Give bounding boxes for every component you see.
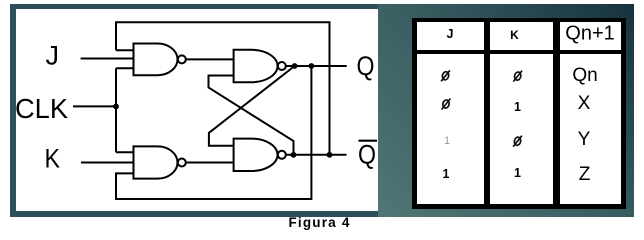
nand gate U3 top-right [234,50,286,82]
wire cross coupling Q to NAND4 upper input [209,66,295,146]
table symbol phi J row2 [442,99,451,110]
wire Qbar feedback top line [116,22,330,155]
svg-text:J: J [46,41,60,71]
svg-text:K: K [45,144,61,174]
nand gate U2 bottom-left [134,146,186,178]
node Q to bottom feedback [309,63,315,69]
node CLK junction [113,104,119,110]
table header K [510,28,519,42]
node Qbar to cross wire [291,152,297,158]
table symbol phi K row1 [513,71,522,82]
wire Q output [286,65,347,67]
table header Qn+1 [565,23,614,46]
svg-text:Q: Q [357,51,375,81]
J column values [444,135,450,147]
svg-text:Q: Q [358,140,376,170]
white circuit box with dark slate frame [10,4,378,217]
wire NAND1 bottom input stub [116,67,134,69]
wire NAND2 top input stub [116,151,134,153]
table header J [447,27,454,41]
wire CLK riser to NAND2 [115,68,117,152]
output label Q-bar [358,140,377,170]
K column values [514,100,521,114]
wire NAND1 top input stub [116,49,134,51]
caption Figura 4 [0,215,639,230]
svg-text:CLK: CLK [15,93,68,124]
node Q to cross wire [292,63,298,69]
wire cross coupling Qbar to NAND3 lower input [209,76,294,155]
wire K input [81,162,134,164]
gradient teal panel [378,4,634,217]
truth table block [412,18,626,209]
wire J input [81,58,134,60]
wire NAND1 output to NAND3 [186,58,234,60]
node Qbar to top feedback [327,152,333,158]
Qn+1 column values [572,65,597,87]
wire CLK input [73,105,116,107]
wire Q feedback bottom line [116,66,311,199]
nand gate U4 bottom-right [234,139,286,171]
wire Qbar output [286,154,347,156]
table symbol phi K row3 [513,136,522,147]
table symbol phi J row1 [441,70,450,81]
nand gate U1 top-left [134,44,186,76]
wire NAND2 output to NAND4 [186,162,234,164]
